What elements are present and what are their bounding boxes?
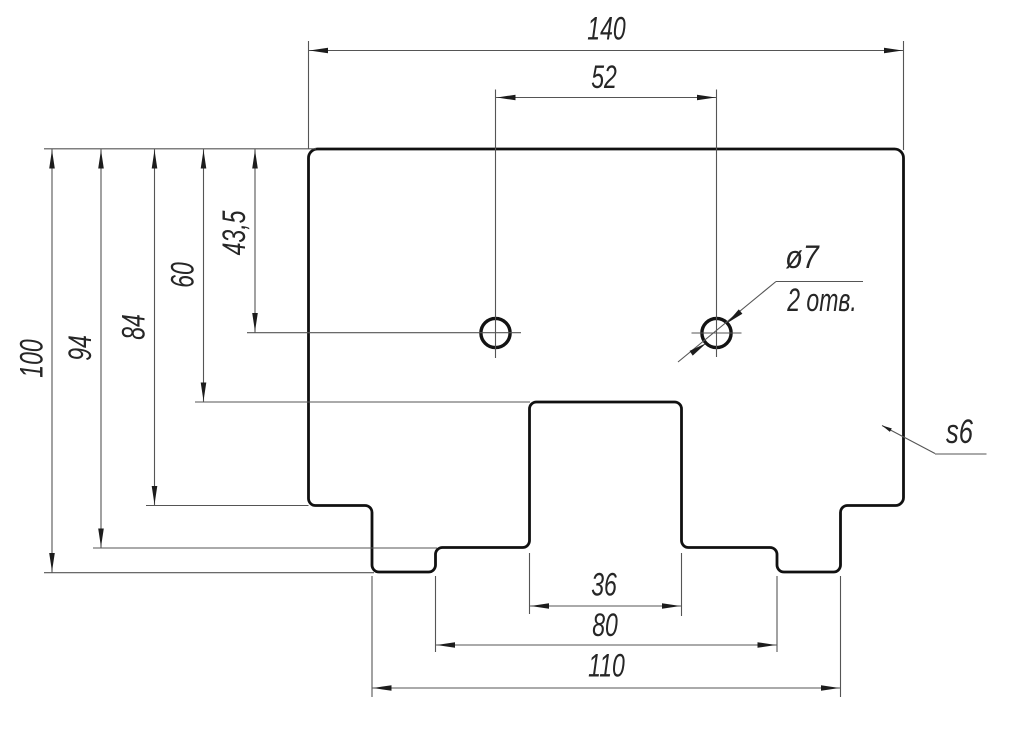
dim 60 bbox=[165, 149, 530, 402]
svg-text:2 отв.: 2 отв. bbox=[786, 282, 856, 318]
svg-text:52: 52 bbox=[591, 59, 617, 95]
dim 52 bbox=[496, 59, 717, 100]
label ⌀7 bbox=[785, 240, 820, 276]
svg-text:80: 80 bbox=[592, 607, 618, 643]
plate outline bbox=[309, 149, 904, 572]
svg-text:140: 140 bbox=[587, 11, 626, 47]
svg-text:s6: s6 bbox=[946, 414, 973, 451]
left dims shared top extension line bbox=[44, 148, 316, 150]
svg-text:110: 110 bbox=[588, 648, 625, 684]
dim 94 bbox=[62, 149, 437, 548]
dim 140 bbox=[309, 11, 904, 150]
dim 100 bbox=[14, 149, 374, 573]
thickness leader s6 bbox=[882, 426, 987, 455]
hole left ⌀7 circle bbox=[481, 318, 510, 347]
svg-text:ø7: ø7 bbox=[785, 240, 820, 276]
label s6 bbox=[946, 414, 973, 451]
hole right centerlines bbox=[692, 90, 742, 358]
svg-text:36: 36 bbox=[591, 567, 617, 603]
hole right ⌀7 circle bbox=[702, 318, 731, 347]
dim 80 bbox=[436, 576, 778, 652]
dim 110 bbox=[372, 576, 841, 697]
svg-text:100: 100 bbox=[14, 339, 50, 378]
dim 84 bbox=[116, 149, 309, 506]
svg-text:43,5: 43,5 bbox=[216, 210, 252, 255]
hole diameter leader bbox=[678, 282, 863, 363]
label 2 otv bbox=[786, 282, 856, 318]
svg-text:94: 94 bbox=[62, 335, 98, 361]
svg-text:60: 60 bbox=[165, 262, 201, 288]
dim 36 bbox=[530, 553, 682, 616]
svg-text:84: 84 bbox=[116, 314, 152, 340]
dim 43,5 bbox=[216, 149, 257, 333]
hole left centerlines bbox=[247, 90, 521, 359]
